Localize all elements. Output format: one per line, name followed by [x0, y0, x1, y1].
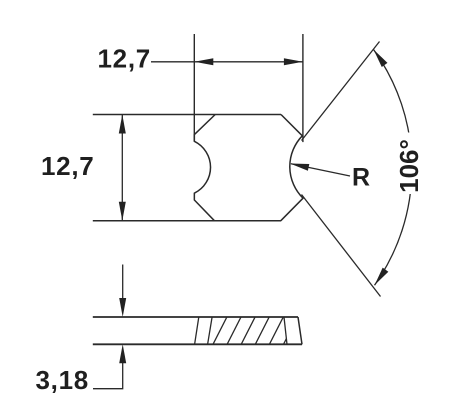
dimension line height 12,7	[121, 115, 123, 221]
thickness arrow above bar	[122, 265, 124, 304]
arrowhead height bottom	[119, 202, 126, 221]
svg-text:106°: 106°	[394, 139, 424, 193]
right profile: chamfers and V-notch with radius R	[281, 115, 303, 221]
arrowhead width left	[194, 58, 213, 65]
arrowhead arc upper	[371, 47, 388, 67]
arrowhead height top	[119, 115, 126, 134]
white gap behind angle label	[393, 133, 422, 195]
angle dimension arc 106 degrees	[374, 50, 412, 286]
side view right end (sheared)	[298, 317, 302, 344]
svg-text:12,7: 12,7	[98, 43, 151, 73]
dimension line width 12,7	[194, 61, 303, 63]
braze joint line B	[208, 317, 213, 344]
braze joint line A	[195, 317, 199, 344]
leader line for R callout	[291, 164, 350, 176]
lower leg of 106 degree angle	[302, 195, 381, 297]
extension line left (for width 12,7)	[193, 34, 195, 141]
section hatching	[212, 315, 298, 346]
top edge of insert with left extension line	[93, 114, 281, 116]
svg-text:R: R	[352, 164, 370, 192]
extension line right (for width 12,7)	[302, 34, 304, 142]
side view top face	[93, 316, 298, 318]
arrowhead width right	[284, 58, 303, 65]
thickness arrow below bar with leader	[93, 358, 123, 389]
arrowhead R callout	[289, 160, 309, 171]
left profile: chamfers, flats and concave radius	[194, 115, 215, 221]
svg-text:3,18: 3,18	[36, 365, 89, 395]
bottom edge of insert with left extension line	[93, 220, 281, 222]
arrowhead arc lower	[372, 268, 389, 288]
carbide section boundary line C	[284, 317, 287, 344]
svg-text:12,7: 12,7	[41, 151, 94, 181]
side view bottom face	[93, 343, 302, 345]
leader from width text	[151, 61, 194, 63]
upper leg of 106 degree angle	[302, 42, 380, 141]
